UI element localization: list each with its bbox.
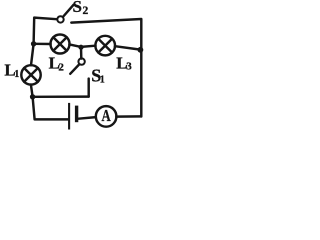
svg-text:2: 2 (58, 62, 64, 74)
svg-text:2: 2 (83, 5, 89, 17)
svg-text:3: 3 (126, 61, 132, 73)
svg-text:1: 1 (14, 69, 19, 80)
svg-text:A: A (102, 106, 112, 125)
svg-text:S: S (73, 0, 82, 16)
svg-text:1: 1 (100, 75, 105, 86)
